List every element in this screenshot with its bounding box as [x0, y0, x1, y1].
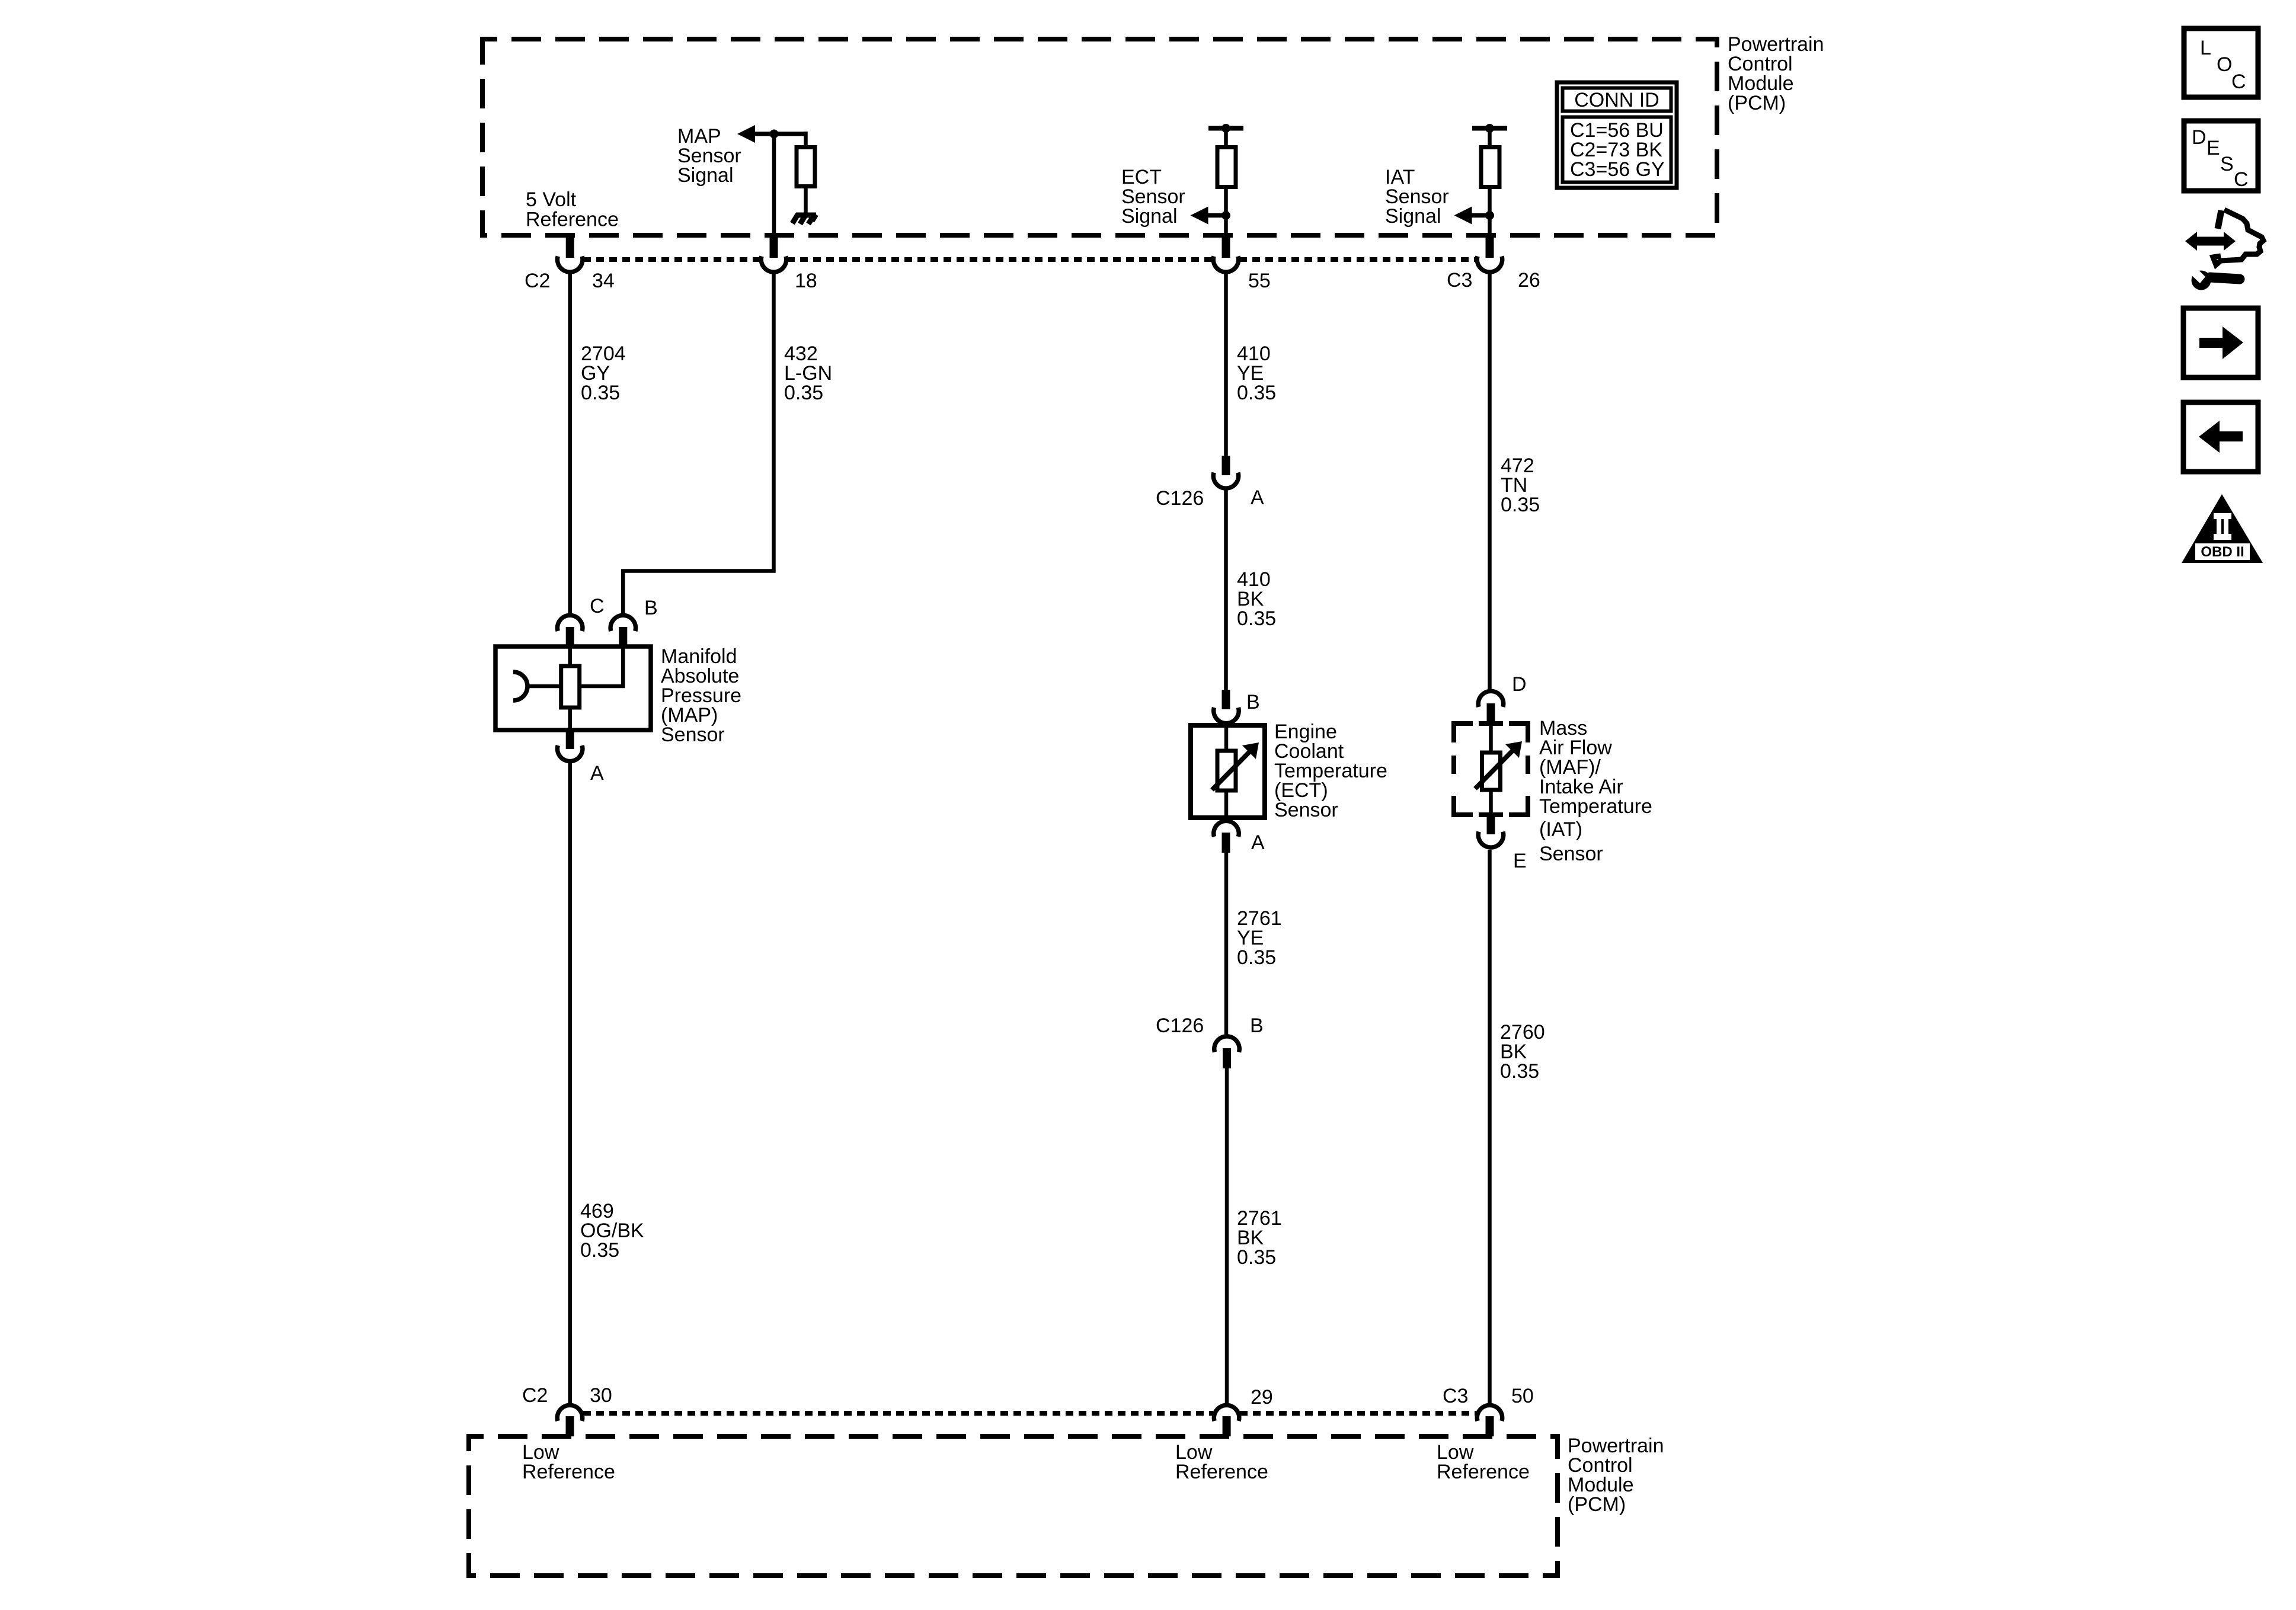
- svg-text:A: A: [1251, 486, 1264, 509]
- svg-text:0.35: 0.35: [1237, 382, 1276, 404]
- svg-text:C: C: [590, 595, 605, 617]
- svg-text:C: C: [2234, 168, 2249, 191]
- svg-text:Sensor: Sensor: [1274, 799, 1338, 821]
- svg-text:C3: C3: [1447, 269, 1472, 292]
- svg-text:0.35: 0.35: [1237, 946, 1276, 969]
- svg-text:(PCM): (PCM): [1568, 1493, 1626, 1516]
- svg-text:18: 18: [795, 270, 817, 292]
- svg-text:C2: C2: [525, 270, 550, 292]
- svg-text:50: 50: [1511, 1385, 1534, 1407]
- svg-text:C3=56 GY: C3=56 GY: [1570, 158, 1665, 181]
- svg-text:30: 30: [590, 1384, 612, 1407]
- svg-text:OBD II: OBD II: [2201, 544, 2244, 560]
- svg-text:Temperature: Temperature: [1539, 795, 1652, 818]
- svg-text:A: A: [1251, 831, 1265, 854]
- svg-text:C3: C3: [1443, 1385, 1468, 1407]
- svg-text:Reference: Reference: [1437, 1461, 1530, 1483]
- svg-text:34: 34: [592, 270, 615, 292]
- svg-text:0.35: 0.35: [581, 382, 620, 404]
- svg-text:E: E: [1513, 850, 1527, 872]
- svg-text:E: E: [2207, 137, 2220, 159]
- svg-text:B: B: [1250, 1014, 1264, 1037]
- svg-text:0.35: 0.35: [1237, 1246, 1276, 1269]
- svg-text:Reference: Reference: [1175, 1461, 1268, 1483]
- svg-text:D: D: [2192, 126, 2207, 149]
- svg-text:Reference: Reference: [522, 1461, 615, 1483]
- svg-text:(PCM): (PCM): [1728, 92, 1786, 114]
- svg-text:0.35: 0.35: [580, 1239, 619, 1262]
- svg-text:55: 55: [1248, 270, 1271, 292]
- svg-text:(IAT): (IAT): [1539, 818, 1582, 841]
- svg-text:L: L: [2200, 37, 2211, 59]
- svg-text:Signal: Signal: [1385, 205, 1441, 228]
- svg-text:Sensor: Sensor: [1539, 843, 1603, 865]
- svg-text:C126: C126: [1156, 487, 1204, 510]
- svg-text:B: B: [644, 597, 658, 619]
- svg-text:O: O: [2217, 53, 2232, 76]
- svg-text:Reference: Reference: [526, 209, 619, 231]
- svg-text:29: 29: [1251, 1386, 1273, 1409]
- svg-text:C126: C126: [1156, 1014, 1204, 1037]
- svg-text:C: C: [2231, 71, 2246, 93]
- svg-text:0.35: 0.35: [1500, 1060, 1539, 1083]
- svg-text:5 Volt: 5 Volt: [526, 188, 577, 211]
- svg-text:Signal: Signal: [1121, 205, 1178, 228]
- svg-text:0.35: 0.35: [1501, 494, 1540, 516]
- svg-text:S: S: [2220, 153, 2234, 175]
- svg-text:Signal: Signal: [677, 164, 734, 187]
- svg-text:D: D: [1512, 673, 1527, 696]
- svg-text:CONN ID: CONN ID: [1574, 89, 1659, 111]
- svg-text:C2: C2: [522, 1384, 548, 1407]
- svg-text:0.35: 0.35: [784, 382, 823, 404]
- svg-text:26: 26: [1518, 269, 1540, 292]
- svg-text:A: A: [590, 762, 604, 785]
- svg-text:B: B: [1246, 691, 1260, 713]
- svg-text:Sensor: Sensor: [661, 724, 725, 746]
- svg-text:0.35: 0.35: [1237, 607, 1276, 630]
